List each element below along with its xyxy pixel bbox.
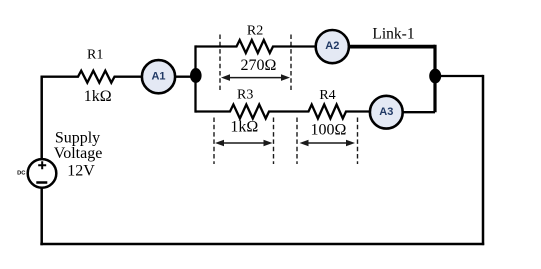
svg-text:Supply: Supply xyxy=(55,129,100,146)
svg-text:100Ω: 100Ω xyxy=(310,122,346,139)
svg-text:A3: A3 xyxy=(379,106,393,118)
svg-text:A1: A1 xyxy=(151,70,165,82)
svg-text:R1: R1 xyxy=(87,48,103,63)
svg-text:R4: R4 xyxy=(319,88,335,103)
svg-text:R3: R3 xyxy=(237,87,253,102)
svg-text:Link-1: Link-1 xyxy=(372,26,414,43)
svg-text:R2: R2 xyxy=(247,23,263,38)
svg-text:270Ω: 270Ω xyxy=(241,57,277,74)
svg-text:12V: 12V xyxy=(67,163,95,180)
svg-text:A2: A2 xyxy=(325,40,339,52)
svg-text:1kΩ: 1kΩ xyxy=(230,119,258,136)
svg-text:Voltage: Voltage xyxy=(54,145,103,162)
svg-text:1kΩ: 1kΩ xyxy=(84,88,112,105)
svg-text:DC: DC xyxy=(17,170,26,176)
